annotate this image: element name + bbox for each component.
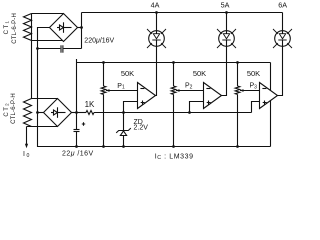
svg-text:2.2V: 2.2V bbox=[134, 125, 149, 132]
svg-text:22μ /16V: 22μ /16V bbox=[62, 151, 94, 158]
svg-text:220μ/16V: 220μ/16V bbox=[84, 38, 114, 45]
svg-text:P1: P1 bbox=[117, 83, 125, 91]
svg-text:50K: 50K bbox=[193, 69, 206, 78]
svg-text:P2: P2 bbox=[185, 83, 193, 91]
svg-text:I0: I0 bbox=[23, 151, 30, 159]
svg-text:50K: 50K bbox=[247, 69, 260, 78]
svg-text:50K: 50K bbox=[121, 69, 134, 78]
svg-text:CTL-6-P-H: CTL-6-P-H bbox=[12, 13, 18, 44]
svg-text:P3: P3 bbox=[250, 83, 258, 91]
svg-text:C T 2: C T 2 bbox=[4, 103, 10, 117]
svg-text:6A: 6A bbox=[278, 1, 287, 10]
svg-text:5A: 5A bbox=[221, 1, 230, 10]
svg-text:1K: 1K bbox=[85, 100, 95, 109]
svg-text:CTL-6-P-H: CTL-6-P-H bbox=[11, 93, 17, 124]
svg-text:4A: 4A bbox=[151, 1, 160, 10]
svg-text:IC : LM339: IC : LM339 bbox=[155, 153, 194, 161]
svg-text:C T 1: C T 1 bbox=[4, 21, 10, 35]
